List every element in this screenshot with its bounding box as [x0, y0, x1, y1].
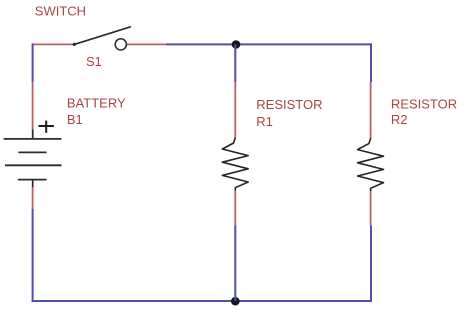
- node bottom junction: [231, 297, 240, 306]
- node top junction: [232, 40, 241, 49]
- svg-text:R2: R2: [391, 112, 408, 127]
- svg-text:R1: R1: [256, 114, 273, 129]
- resistor R1: [222, 138, 248, 191]
- wire R1 branch blue upper: [234, 44, 236, 82]
- svg-text:S1: S1: [86, 54, 102, 69]
- svg-text:RESISTOR: RESISTOR: [256, 97, 322, 112]
- wire red below battery (negative lead): [32, 187, 34, 209]
- wire R2 bottom red lead: [370, 191, 372, 225]
- svg-text:SWITCH: SWITCH: [35, 3, 86, 18]
- wire left vertical blue lower: [32, 209, 34, 302]
- wire right vertical blue upper: [370, 43, 372, 82]
- switch S1: [73, 27, 131, 50]
- resistor R2: [358, 138, 384, 191]
- wire R2 top red lead: [370, 82, 372, 138]
- wire top-left red segment from corner to switch hinge: [32, 43, 74, 45]
- wire R1 top red lead: [234, 82, 236, 138]
- svg-text:B1: B1: [67, 112, 83, 127]
- wire red segment from switch contact to blue wire: [127, 43, 167, 45]
- wire left vertical blue upper: [32, 43, 34, 82]
- wire R1 branch blue lower: [234, 225, 236, 301]
- wire right vertical blue lower: [370, 225, 372, 302]
- wire R1 bottom red lead: [234, 191, 236, 226]
- wire left vertical red (battery positive lead): [32, 82, 34, 130]
- battery B1: [4, 121, 62, 188]
- wire bottom blue: [32, 300, 372, 302]
- wire top blue segment to right corner: [166, 43, 372, 45]
- svg-text:RESISTOR: RESISTOR: [391, 96, 457, 111]
- svg-text:BATTERY: BATTERY: [67, 95, 126, 110]
